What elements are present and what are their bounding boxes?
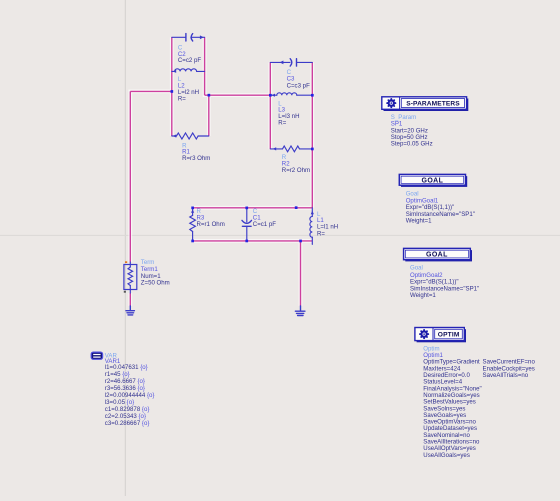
wire: bottom block bottom rail bbox=[193, 240, 313, 242]
R2 value labels bbox=[282, 154, 310, 174]
svg-text:Z=50 Ohm: Z=50 Ohm bbox=[141, 280, 170, 287]
R1 value labels bbox=[182, 142, 210, 162]
GOAL controller block 2 bbox=[404, 248, 472, 261]
wire: R1 right vertical bbox=[208, 95, 210, 136]
svg-text:C=c1 pF: C=c1 pF bbox=[253, 221, 276, 228]
wire: block1 right vertical bbox=[204, 37, 206, 95]
svg-text:SaveAllTrials=no: SaveAllTrials=no bbox=[483, 372, 529, 379]
ground (bottom rail) bbox=[295, 306, 305, 316]
junction: block2 right at R2 bbox=[311, 148, 314, 151]
wire: bottom block top rail bbox=[193, 207, 313, 209]
C1 value labels bbox=[253, 208, 276, 228]
wire: Term1 top to node A bbox=[129, 91, 131, 262]
wire: block2 right vertical down to bottom block bbox=[311, 62, 313, 207]
junction: block2 right at L3 bbox=[311, 94, 314, 97]
svg-text:r1=45 {o}: r1=45 {o} bbox=[105, 371, 130, 378]
junction: bottom rail at C1 bbox=[245, 240, 248, 243]
ground (under Term1) bbox=[126, 306, 134, 315]
C3 value labels bbox=[287, 69, 310, 89]
svg-text:GOAL: GOAL bbox=[426, 252, 448, 259]
svg-text:l3=0.05 {o}: l3=0.05 {o} bbox=[105, 399, 134, 406]
svg-text:L=l1 nH: L=l1 nH bbox=[317, 223, 338, 230]
svg-text:OPTIM: OPTIM bbox=[438, 331, 460, 338]
WIRES bbox=[130, 37, 312, 306]
L3 value labels bbox=[278, 100, 299, 126]
wire: block1 to block2 horizontal bbox=[205, 94, 271, 96]
svg-text:Weight=1: Weight=1 bbox=[410, 292, 436, 299]
wire: block1 left vertical bbox=[171, 37, 173, 136]
junction: R1 branch bbox=[208, 94, 211, 97]
Optim1 labels column 1 bbox=[423, 345, 481, 458]
svg-text:c3=0.286667 {o}: c3=0.286667 {o} bbox=[105, 420, 150, 427]
node A junction (Term to block1) bbox=[171, 90, 174, 93]
wire: node A horizontal to block1 left bbox=[130, 90, 172, 92]
svg-text:UseAllGoals=yes: UseAllGoals=yes bbox=[423, 452, 470, 459]
svg-text:GOAL: GOAL bbox=[421, 177, 443, 184]
svg-text:R=: R= bbox=[278, 119, 286, 126]
GOAL controller block 1 bbox=[399, 174, 467, 187]
junction dots bbox=[171, 90, 314, 242]
junction: bottom rail at ground stub bbox=[299, 240, 302, 243]
junction: top rail at R3 bbox=[191, 207, 194, 210]
capacitor C3 bbox=[270, 59, 312, 66]
svg-text:r3=56.3636 {o}: r3=56.3636 {o} bbox=[105, 385, 145, 392]
wire: block2 left vertical bbox=[269, 62, 271, 148]
C2 value labels bbox=[178, 45, 201, 65]
svg-text:C=c3 pF: C=c3 pF bbox=[287, 82, 310, 89]
resistor R1 bbox=[172, 133, 209, 139]
junction: top rail at C1 bbox=[245, 207, 248, 210]
svg-text:l2=0.00944444 {o}: l2=0.00944444 {o} bbox=[105, 392, 155, 399]
OptimGoal2 labels bbox=[410, 265, 479, 300]
svg-text:R=r1 Ohm: R=r1 Ohm bbox=[197, 221, 225, 228]
svg-text:C=c2 pF: C=c2 pF bbox=[178, 57, 201, 64]
svg-text:R=r2 Ohm: R=r2 Ohm bbox=[282, 167, 310, 174]
svg-text:c2=2.05343 {o}: c2=2.05343 {o} bbox=[105, 413, 146, 420]
OptimGoal1 labels bbox=[406, 190, 475, 224]
wire: bottom rail to ground bbox=[300, 241, 302, 306]
L1 value labels bbox=[317, 211, 338, 237]
OPTIM controller block bbox=[415, 328, 466, 343]
svg-text:R=: R= bbox=[178, 96, 186, 103]
junction: bottom rail at R3 bbox=[191, 240, 194, 243]
port Term1 bbox=[124, 261, 137, 293]
wire: Term1 bottom to ground bbox=[129, 293, 131, 306]
resistor R2 bbox=[270, 146, 312, 152]
svg-text:c1=0.829878 {o}: c1=0.829878 {o} bbox=[105, 406, 150, 413]
svg-text:r2=46.6667 {o}: r2=46.6667 {o} bbox=[105, 378, 145, 385]
svg-text:Step=0.05 GHz: Step=0.05 GHz bbox=[391, 140, 433, 147]
svg-text:S-PARAMETERS: S-PARAMETERS bbox=[406, 100, 460, 107]
capacitor C2 bbox=[172, 34, 205, 41]
component labels bbox=[141, 45, 338, 287]
inductor L1 bbox=[310, 208, 314, 245]
S_Param SP1 labels bbox=[391, 114, 433, 147]
svg-text:R=r3 Ohm: R=r3 Ohm bbox=[182, 155, 210, 162]
Term1 value labels bbox=[141, 259, 170, 286]
resistor R3 bbox=[190, 208, 196, 241]
VAR1 labels bbox=[105, 353, 155, 427]
svg-text:R=: R= bbox=[317, 230, 325, 237]
capacitor C1 bbox=[242, 208, 252, 241]
VAR equation block icon bbox=[91, 352, 102, 359]
inductor L2 bbox=[172, 69, 205, 73]
inductor L3 bbox=[270, 93, 312, 97]
R3 value labels bbox=[197, 208, 225, 228]
junction: top rail segment node bbox=[295, 206, 298, 209]
S-PARAMETERS controller block bbox=[382, 97, 469, 111]
junction: block2 left at L3 bbox=[269, 94, 272, 97]
svg-text:l1=0.047631 {o}: l1=0.047631 {o} bbox=[105, 364, 148, 371]
svg-text:Goal: Goal bbox=[410, 265, 423, 272]
Optim1 labels column 2 bbox=[483, 359, 536, 379]
L2 value labels bbox=[178, 76, 199, 103]
svg-text:Weight=1: Weight=1 bbox=[406, 218, 432, 225]
